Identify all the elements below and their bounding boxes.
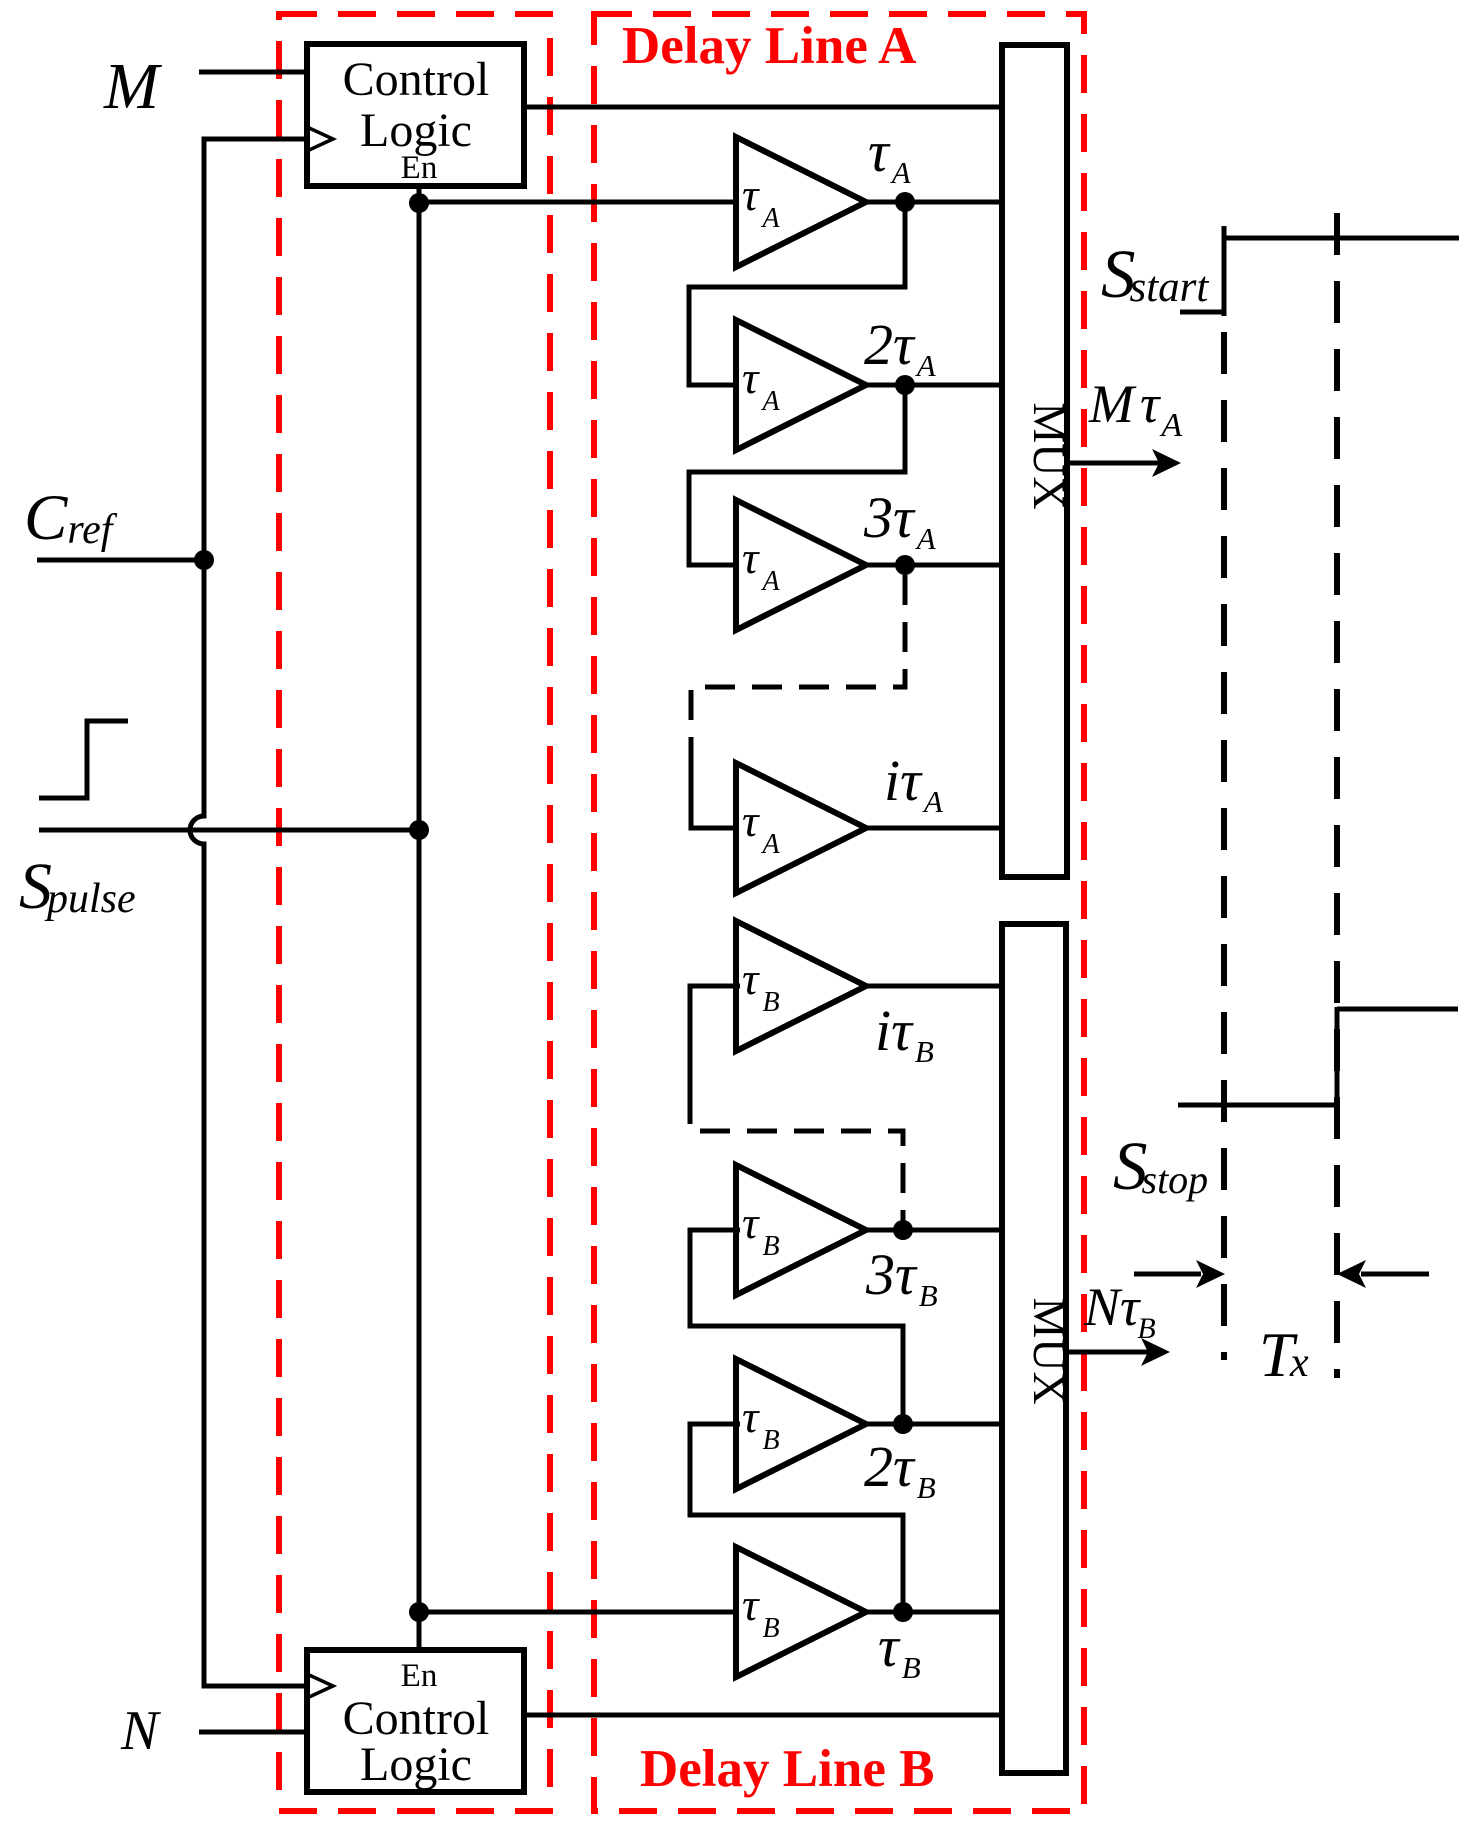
buffer tau_B 3 [736, 1165, 866, 1295]
waveform Sstart [1180, 226, 1459, 316]
arrowhead Ntau_B [1141, 1338, 1170, 1366]
junction 2tau_A [895, 375, 915, 395]
buffer tau_B i [736, 921, 866, 1051]
junction 2tau_B [893, 1414, 913, 1434]
MUX B box [1002, 924, 1066, 1773]
wire En bus vertical [417, 186, 422, 1650]
svg-text:Logic: Logic [360, 1738, 472, 1791]
junction Spulse / En bus [409, 820, 429, 840]
wire B2 output [866, 1422, 1004, 1427]
svg-text:MUX: MUX [1024, 402, 1075, 509]
clock input pin U1 [307, 127, 333, 151]
buffer tau_B 1 [736, 1547, 866, 1677]
MUX A box [1002, 45, 1067, 877]
red dashed box: control logic region [279, 14, 550, 1811]
junction tau_B [893, 1602, 913, 1622]
wire N input [199, 1730, 310, 1735]
wire A3 to Ai dashed elbow [691, 575, 905, 737]
buffer tau_B 2 [736, 1359, 866, 1489]
wire U2 output to MUX B [524, 1713, 1004, 1718]
junction 3tau_B [893, 1220, 913, 1240]
svg-text:Delay Line B: Delay Line B [640, 1740, 934, 1798]
wire A3 output [866, 563, 1004, 568]
svg-text:Delay Line A: Delay Line A [622, 17, 916, 75]
svg-text:N: N [120, 1700, 161, 1762]
dimension arrow left [1134, 1272, 1201, 1277]
wire MUX A output Mtau_A [1067, 461, 1160, 466]
wire A1 to A2 elbow [689, 202, 905, 385]
wire Spulse input [39, 828, 421, 833]
junction En A [409, 193, 429, 213]
wire A2 to A3 elbow [689, 385, 905, 565]
buffer tau_A 3 [736, 500, 866, 630]
wire U1 output to MUX A [524, 105, 1004, 110]
wire M input [199, 70, 310, 75]
junction En B [409, 1602, 429, 1622]
wire clock bus (Cref vertical) with hop over Spulse [190, 139, 310, 1686]
wire B3 to B2 elbow [690, 1230, 903, 1424]
dimension arrow right [1361, 1272, 1429, 1277]
junction Cref [194, 550, 214, 570]
wire Bi dashed elbow from 3tau_B [690, 1094, 903, 1225]
svg-text:Control: Control [343, 53, 490, 106]
wire MUX B output Ntau_B [1066, 1350, 1148, 1355]
wire En A to delay line [419, 200, 740, 205]
control logic U2 box [307, 1650, 524, 1792]
dashed marker line 2 [1334, 213, 1340, 1378]
buffer tau_A 1 [736, 137, 866, 267]
wire Ai output [866, 826, 1004, 831]
svg-text:En: En [401, 1658, 438, 1694]
wire A2 output [866, 383, 1004, 388]
control logic U1 box [307, 44, 524, 186]
clock input pin U2 [307, 1674, 333, 1698]
buffer tau_A 2 [736, 320, 866, 450]
wire Bi output [866, 984, 1004, 989]
svg-text:M: M [103, 50, 163, 123]
wire Cref input [37, 558, 204, 563]
red dashed box: delay lines region [594, 14, 1084, 1811]
arrowhead Mtau_A [1152, 449, 1181, 477]
wire Ai input [691, 737, 740, 828]
wire En B to delay line [419, 1610, 740, 1615]
wire B1 output [866, 1610, 1004, 1615]
wire A1 output [866, 200, 1004, 205]
junction 3tau_A [895, 555, 915, 575]
svg-text:En: En [401, 150, 438, 186]
wire B3 output [866, 1228, 1004, 1233]
wire Bi input [690, 986, 740, 1094]
waveform Sstop [1178, 1007, 1458, 1106]
junction tau_A [895, 192, 915, 212]
pulse edge symbol [39, 721, 128, 798]
dashed marker line 1 [1221, 332, 1227, 1360]
wire B2 to B1 elbow [690, 1424, 903, 1612]
buffer tau_A i [736, 763, 866, 893]
